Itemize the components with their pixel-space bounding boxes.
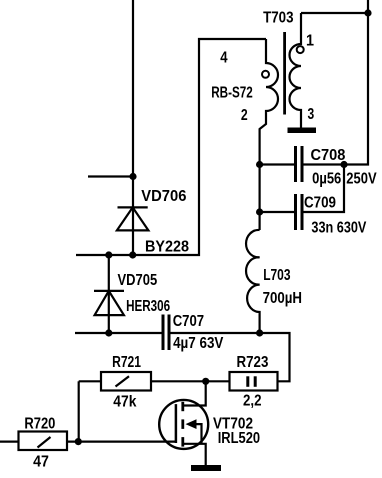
svg-text:C709: C709 (304, 195, 336, 212)
svg-text:0µ56: 0µ56 (312, 170, 341, 187)
svg-text:R723: R723 (237, 354, 269, 371)
svg-text:BY228: BY228 (145, 239, 189, 256)
svg-text:47: 47 (33, 454, 49, 471)
svg-text:HER306: HER306 (126, 298, 170, 315)
svg-text:VD705: VD705 (118, 272, 158, 289)
svg-text:VD706: VD706 (141, 188, 186, 205)
svg-text:C708: C708 (311, 147, 346, 164)
svg-text:700µH: 700µH (263, 290, 302, 307)
svg-text:2,2: 2,2 (243, 392, 262, 409)
svg-text:250V: 250V (346, 170, 377, 187)
svg-text:C707: C707 (173, 313, 204, 330)
svg-text:47k: 47k (113, 393, 136, 410)
svg-text:4µ7 63V: 4µ7 63V (173, 335, 224, 352)
svg-text:T703: T703 (263, 10, 293, 27)
svg-text:IRL520: IRL520 (218, 430, 260, 447)
svg-text:L703: L703 (263, 267, 290, 284)
svg-text:4: 4 (220, 49, 227, 66)
svg-text:RB-S72: RB-S72 (211, 85, 253, 102)
svg-text:R721: R721 (112, 354, 141, 371)
svg-text:33n 630V: 33n 630V (311, 219, 366, 236)
svg-text:3: 3 (308, 106, 315, 123)
svg-text:2: 2 (241, 107, 248, 124)
svg-text:1: 1 (306, 33, 314, 50)
svg-text:R720: R720 (24, 415, 55, 432)
